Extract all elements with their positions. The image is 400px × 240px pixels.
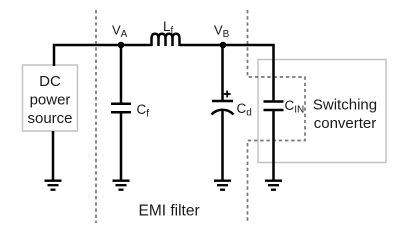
- svg-text:Lf: Lf: [163, 19, 174, 37]
- wire: DC source top to node A: [54, 45, 121, 66]
- wire: node B to converter corner: [223, 45, 274, 101]
- node B junction dot: [220, 42, 227, 49]
- wire: node B down to Cd: [221, 45, 224, 100]
- svg-text:VA: VA: [112, 23, 128, 41]
- svg-text:DC: DC: [39, 73, 61, 90]
- ground (below CIN): [265, 181, 282, 190]
- Switching converter box: [258, 60, 386, 163]
- svg-text:Switching: Switching: [313, 97, 377, 114]
- node A junction dot: [118, 42, 125, 49]
- plus sign of Cd: [224, 91, 231, 98]
- svg-text:power: power: [30, 92, 71, 109]
- svg-text:Cf: Cf: [137, 102, 150, 120]
- DC power source box: [23, 65, 78, 131]
- wire: inductor to node B: [180, 44, 224, 47]
- svg-text:source: source: [27, 110, 72, 127]
- EMI filter left dashed boundary: [95, 10, 97, 223]
- wire: node A to inductor: [121, 44, 152, 47]
- wire: Cf to ground: [120, 112, 123, 180]
- ground (below DC source): [45, 181, 62, 190]
- svg-text:EMI filter: EMI filter: [139, 203, 200, 220]
- ground (below Cd): [214, 181, 231, 190]
- svg-text:VB: VB: [214, 23, 230, 41]
- inductor Lf: [152, 34, 180, 46]
- wire: DC source bottom to ground: [52, 131, 55, 180]
- svg-text:converter: converter: [314, 115, 377, 132]
- capacitor Cf: [111, 104, 131, 112]
- ground (below Cf): [113, 181, 130, 190]
- EMI filter right dashed boundary (jogs around CIN): [248, 10, 306, 223]
- wire: CIN to ground: [272, 110, 275, 180]
- capacitor Cd (polarized): [212, 101, 234, 115]
- svg-text:Cd: Cd: [237, 101, 252, 119]
- capacitor CIN: [264, 102, 284, 111]
- wire: Cd to ground: [221, 110, 224, 180]
- wire: node A down to Cf: [120, 45, 123, 103]
